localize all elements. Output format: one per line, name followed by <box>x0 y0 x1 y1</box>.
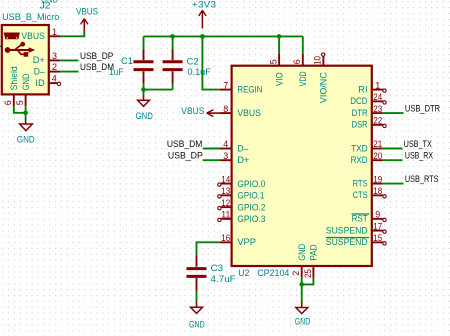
wire C3 bottom <box>196 291 198 302</box>
svg-text:25: 25 <box>303 269 313 278</box>
svg-text:CP2104: CP2104 <box>257 268 289 278</box>
U2 pin 16 VPP <box>220 233 256 247</box>
svg-text:GND: GND <box>189 319 205 329</box>
wire junction to gnd <box>143 90 145 95</box>
junction +3V3 <box>200 34 205 39</box>
U2 pin 14 GPIO.0 (unconnected) <box>218 174 266 189</box>
J2 pin 6 Shield <box>3 66 19 106</box>
wire J2 pin6 to junction <box>14 106 26 113</box>
junction J2 ground <box>23 111 28 116</box>
U2 pin 22 DSR (unconnected) <box>352 116 387 130</box>
wire VIO drop <box>278 36 280 54</box>
svg-text:USB_DP: USB_DP <box>168 151 203 161</box>
svg-text:D+: D+ <box>33 55 45 65</box>
svg-text:5: 5 <box>15 100 25 105</box>
svg-text:6: 6 <box>3 100 13 105</box>
wire J2 pin5 down <box>25 106 27 119</box>
svg-text:7: 7 <box>223 80 228 90</box>
svg-text:RST: RST <box>352 214 368 224</box>
svg-text:USB_RTS: USB_RTS <box>405 174 439 184</box>
svg-text:DTR: DTR <box>352 108 368 118</box>
U2 pin 5 VIO (top) <box>268 54 284 86</box>
ground symbol at J2 <box>17 119 35 145</box>
svg-text:USB_DP: USB_DP <box>80 51 113 61</box>
U2 pin 19 RTS <box>353 174 383 188</box>
svg-text:REGIN: REGIN <box>237 84 262 94</box>
svg-text:GND: GND <box>295 316 311 326</box>
ground symbol at C1 <box>136 95 154 121</box>
U2 pin 1 RI (unconnected) <box>358 80 386 94</box>
svg-text:18: 18 <box>373 186 382 196</box>
svg-text:VBUS: VBUS <box>76 6 98 16</box>
U2 pin 15 SUSPEND (unconnected, active low) <box>326 233 386 247</box>
svg-text:9: 9 <box>375 210 380 220</box>
power symbol +3V3 <box>192 0 216 28</box>
power symbol VBUS (at U2 pin 8, pointing left) <box>181 106 220 117</box>
wire U2 pin25 to junction <box>302 278 314 285</box>
svg-text:C3: C3 <box>211 263 224 273</box>
svg-text:16: 16 <box>221 233 230 243</box>
U2 pin 20 RXD <box>351 151 383 165</box>
svg-text:VIO/NC: VIO/NC <box>319 72 329 103</box>
U2 pin 24 DCD (unconnected) <box>350 92 386 106</box>
U2 pin 18 CTS (unconnected) <box>353 186 387 200</box>
svg-text:VBUS: VBUS <box>237 108 261 118</box>
svg-text:GND: GND <box>21 73 31 90</box>
svg-text:5: 5 <box>268 59 278 64</box>
junction VIO drop <box>277 34 282 39</box>
U2 pin 12 GPIO.2 (unconnected) <box>218 198 266 213</box>
svg-text:SUSPEND: SUSPEND <box>326 237 368 247</box>
svg-text:D+: D+ <box>237 155 249 165</box>
U2 pin 9 RST (unconnected, active low) <box>352 210 387 224</box>
wire cap ground bus <box>144 89 173 91</box>
wire TXD to label <box>383 148 403 150</box>
ground symbol at U2 <box>295 302 311 326</box>
top power wire net <box>144 35 303 37</box>
power symbol VBUS (top left) <box>76 6 98 31</box>
wire USB_DP to D+ <box>203 159 220 161</box>
wire C2 bottom <box>172 84 174 90</box>
svg-text:GPIO.3: GPIO.3 <box>237 214 265 224</box>
junction C2 top <box>170 34 175 39</box>
svg-text:2: 2 <box>291 271 301 276</box>
connector J2 body <box>2 25 49 94</box>
svg-text:0.1uF: 0.1uF <box>188 67 212 77</box>
svg-text:24: 24 <box>373 92 382 102</box>
U2 pin 17 SUSPEND (unconnected) <box>326 221 386 235</box>
capacitor C2 <box>163 49 183 84</box>
svg-text:1: 1 <box>375 80 380 90</box>
svg-text:J2: J2 <box>40 1 51 11</box>
wire J2 D- to label <box>60 71 78 73</box>
J2 pin 2 D- <box>34 62 61 76</box>
svg-text:6: 6 <box>292 59 302 64</box>
U2 pin 8 VBUS <box>220 104 261 118</box>
U2 pin 25 PAD (bottom) <box>303 244 319 278</box>
U2 pin 6 VDD (top) <box>292 54 308 86</box>
svg-text:PAD: PAD <box>309 244 319 261</box>
svg-text:14: 14 <box>221 174 230 184</box>
svg-text:D–: D– <box>237 143 249 153</box>
capacitor C3 <box>187 255 207 291</box>
U2 pin 23 DTR <box>352 104 383 118</box>
svg-text:12: 12 <box>221 198 230 208</box>
svg-text:2: 2 <box>52 62 57 72</box>
svg-text:CTS: CTS <box>353 190 368 200</box>
svg-text:23: 23 <box>373 104 382 114</box>
svg-text:3: 3 <box>52 51 57 61</box>
svg-text:RXD: RXD <box>351 155 368 165</box>
svg-text:D–: D– <box>34 66 46 76</box>
wire USB_DM to D- <box>203 148 220 150</box>
svg-text:U2: U2 <box>238 268 249 278</box>
U2 pin 2 GND (bottom) <box>291 244 307 278</box>
J2 pin 1 VBUS <box>21 27 60 41</box>
wire J2 pin1 to VBUS power <box>60 31 84 36</box>
wire RTS to label <box>383 183 404 185</box>
svg-text:VBUS: VBUS <box>21 31 44 41</box>
wire RXD to label <box>383 159 403 161</box>
svg-text:GPIO.2: GPIO.2 <box>237 202 265 212</box>
svg-text:8: 8 <box>223 104 228 114</box>
svg-text:USB_B_Micro: USB_B_Micro <box>2 12 59 22</box>
svg-text:4: 4 <box>223 139 228 149</box>
svg-text:VPP: VPP <box>237 237 256 247</box>
J2 pin 3 D+ <box>33 51 61 65</box>
svg-text:VDD: VDD <box>298 71 308 86</box>
wire C2 top drop <box>172 36 174 49</box>
svg-text:3: 3 <box>223 151 228 161</box>
wire VPP net <box>197 242 220 255</box>
U2 pin 13 GPIO.1 (unconnected) <box>218 186 265 201</box>
svg-text:VBUS: VBUS <box>181 106 204 116</box>
wire C1 bottom <box>143 84 145 90</box>
svg-text:4.7uF: 4.7uF <box>211 274 237 284</box>
USB trident icon <box>5 42 36 57</box>
svg-text:Shield: Shield <box>9 66 19 90</box>
USB plug icon <box>4 33 19 39</box>
svg-text:GND: GND <box>136 111 154 121</box>
svg-text:SUSPEND: SUSPEND <box>326 225 368 235</box>
clipped text fragment at left edge <box>0 45 2 47</box>
ground symbol at C3 <box>189 302 205 329</box>
U2 pin 11 GPIO.3 (unconnected) <box>218 210 266 225</box>
svg-text:20: 20 <box>373 151 382 161</box>
U2 pin 4 D- <box>220 139 249 153</box>
svg-text:22: 22 <box>373 116 382 126</box>
U2 pin 3 D+ <box>220 151 250 165</box>
wire +3V3 to REGIN <box>202 36 220 89</box>
wire U2 pin2 down <box>301 278 303 302</box>
svg-text:GND: GND <box>17 135 35 145</box>
svg-text:21: 21 <box>373 139 382 149</box>
wire C1 top drop <box>143 36 145 49</box>
svg-text:USB_RX: USB_RX <box>405 151 433 161</box>
svg-text:DCD: DCD <box>350 96 368 106</box>
wire J2 D+ to label <box>60 59 78 61</box>
svg-text:17: 17 <box>373 221 382 231</box>
U2 pin 7 REGIN <box>220 80 263 94</box>
svg-text:1: 1 <box>52 27 57 37</box>
svg-text:GND: GND <box>297 244 307 261</box>
svg-text:+3V3: +3V3 <box>192 0 216 10</box>
svg-text:1uF: 1uF <box>109 67 124 77</box>
svg-text:TXD: TXD <box>351 143 368 153</box>
svg-text:VIO: VIO <box>274 72 284 86</box>
svg-text:RTS: RTS <box>353 178 368 188</box>
svg-text:GPIO.1: GPIO.1 <box>237 191 264 201</box>
svg-text:USB_TX: USB_TX <box>404 139 432 149</box>
J2 pin 5 GND <box>15 73 31 106</box>
junction U2 ground <box>299 282 304 287</box>
IC U2 CP2104 body <box>232 66 372 266</box>
U2 pin 21 TXD <box>351 139 383 153</box>
wire DTR to label <box>383 112 404 114</box>
svg-text:13: 13 <box>221 186 230 196</box>
svg-text:11: 11 <box>221 210 230 220</box>
svg-text:DSR: DSR <box>352 120 368 130</box>
capacitor C1 <box>134 49 154 84</box>
svg-text:ID: ID <box>35 78 45 88</box>
svg-text:C1: C1 <box>121 56 133 66</box>
junction C1 bottom <box>141 87 146 92</box>
wire VDD drop <box>302 36 304 54</box>
U2 pin 10 VIO/NC (top, unconnected) <box>313 53 329 103</box>
svg-text:RI: RI <box>358 84 367 94</box>
svg-text:USB_DTR: USB_DTR <box>405 104 440 114</box>
svg-text:USB_DM: USB_DM <box>167 139 203 149</box>
svg-text:15: 15 <box>373 233 382 243</box>
J2 pin 4 ID (unconnected) <box>35 74 60 88</box>
svg-text:10: 10 <box>313 56 323 65</box>
svg-text:C2: C2 <box>187 56 199 66</box>
svg-text:GPIO.0: GPIO.0 <box>237 179 265 189</box>
svg-text:19: 19 <box>373 174 382 184</box>
svg-text:4: 4 <box>52 74 57 84</box>
